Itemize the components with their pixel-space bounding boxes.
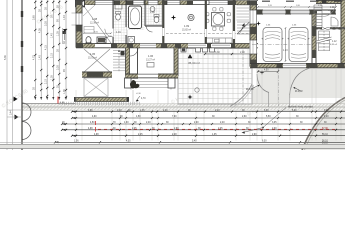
road band <box>0 144 345 148</box>
driveway centerline dash-dot <box>278 68 280 106</box>
garage bottom wall <box>250 64 345 68</box>
interior wall v6 <box>233 0 235 44</box>
svg-text:1.12: 1.12 <box>332 41 337 43</box>
upper storey dashed line <box>166 33 250 35</box>
terrace star symbol <box>187 94 192 99</box>
svg-text:2,45: 2,45 <box>138 134 143 136</box>
terrace corner arc cut <box>230 84 252 107</box>
red survey tick <box>57 97 59 105</box>
svg-text:4,35: 4,35 <box>126 141 131 143</box>
driveway wedge near terrace <box>230 84 289 107</box>
svg-text:2,00: 2,00 <box>194 122 199 124</box>
fence comb ticks <box>59 102 61 105</box>
svg-text:56,10: 56,10 <box>322 134 328 136</box>
svg-text:3,05: 3,05 <box>272 122 277 124</box>
red site dashed line <box>98 128 101 130</box>
dim row y=118.0 <box>72 117 345 119</box>
svg-text:4,90: 4,90 <box>92 116 97 118</box>
svg-text:1,50: 1,50 <box>136 116 141 118</box>
svg-text:2,90: 2,90 <box>252 134 257 136</box>
right exterior wall of house <box>250 1 257 67</box>
car 2 <box>289 28 308 62</box>
wardrobe room 1.08 <box>84 27 94 34</box>
front fence wall band <box>75 98 128 102</box>
section marker A <box>63 29 67 32</box>
left fence line <box>21 0 23 150</box>
dim row y=135.7 <box>72 135 345 137</box>
svg-text:35,34 m²: 35,34 m² <box>188 61 200 65</box>
divider X brace top right <box>316 27 322 30</box>
svg-text:5,40: 5,40 <box>192 141 197 143</box>
vestibule inner wall <box>137 48 139 76</box>
left small arrows bottom of chains <box>34 97 36 100</box>
svg-text:2,40: 2,40 <box>146 122 151 124</box>
leader arrow near fence <box>136 96 140 101</box>
fence line redraw <box>21 96 23 150</box>
svg-text:1,35: 1,35 <box>212 134 217 136</box>
gate swing arc 1 <box>22 103 31 121</box>
room 1.05 cross diagonals <box>84 49 110 72</box>
garage top wall <box>257 10 337 14</box>
driveway arc right R4 <box>290 68 311 95</box>
svg-text:4,20: 4,20 <box>324 116 329 118</box>
pavement hatched band 1 <box>22 104 345 107</box>
svg-text:4,90: 4,90 <box>88 110 93 112</box>
svg-text:12,36 m²: 12,36 m² <box>90 22 99 25</box>
svg-text:2,40: 2,40 <box>240 51 245 54</box>
room 1.08 diagonal window-to-floor marks <box>83 5 111 43</box>
pantry shelves <box>237 4 250 6</box>
dim row y=111.6 <box>72 111 345 113</box>
left dim chain lines <box>34 0 36 100</box>
vestibule right wall / terrace edge <box>174 48 178 76</box>
left dim line a <box>6 0 8 150</box>
left exterior wall <box>76 1 82 48</box>
svg-text:1,40: 1,40 <box>63 15 66 20</box>
exterior stair upper <box>314 4 322 6</box>
right rooms divider wall <box>316 27 345 29</box>
washbasin <box>150 7 155 12</box>
svg-text:6,30: 6,30 <box>262 141 267 143</box>
driveway path strip <box>268 93 289 107</box>
boiler double circle <box>188 14 194 20</box>
wc toilet <box>154 16 159 22</box>
svg-text:4,05: 4,05 <box>38 28 41 33</box>
dim between cars <box>285 28 287 61</box>
interior wall v5 <box>205 0 207 44</box>
driveway paved area fill <box>257 68 345 99</box>
svg-text:2,40: 2,40 <box>220 122 225 124</box>
dim row y=129.8 <box>62 129 345 131</box>
dimension extension lines lower <box>75 111 77 141</box>
interior wall h1 <box>145 25 163 27</box>
svg-text:6,85 m²: 6,85 m² <box>330 43 337 46</box>
svg-text:15,82 m²: 15,82 m² <box>182 29 191 32</box>
svg-text:4,98: 4,98 <box>88 128 93 130</box>
wc tiled floor <box>146 3 162 25</box>
terrace planter boxes <box>181 48 186 53</box>
svg-text:5,50: 5,50 <box>266 116 271 118</box>
gutter mark left <box>62 28 64 44</box>
big site curve <box>302 98 345 151</box>
svg-text:13,27 m²: 13,27 m² <box>146 59 155 62</box>
chairs <box>206 13 209 16</box>
garage star <box>256 21 261 26</box>
svg-text:1.01: 1.01 <box>116 31 121 34</box>
interior wall v4 <box>162 0 164 44</box>
svg-text:2,10: 2,10 <box>215 110 220 112</box>
room 1.05 bottom wall <box>82 72 112 77</box>
far right exterior wall <box>341 0 345 64</box>
svg-text:3,44: 3,44 <box>10 110 13 115</box>
svg-text:7,90: 7,90 <box>172 116 177 118</box>
svg-text:1,40: 1,40 <box>38 55 41 60</box>
svg-text:1,35: 1,35 <box>56 31 59 36</box>
room 1.11 counter <box>331 17 338 26</box>
fence end posts <box>74 97 77 102</box>
svg-text:4,15: 4,15 <box>44 45 47 50</box>
driveway star <box>260 70 265 75</box>
svg-text:4,50: 4,50 <box>90 122 95 124</box>
door swing top right <box>323 4 336 17</box>
svg-text:1,30: 1,30 <box>124 122 129 124</box>
driveway path edges <box>268 93 270 108</box>
left gate arrow 1 <box>14 97 18 102</box>
svg-text:1,35: 1,35 <box>63 89 66 94</box>
svg-text:2,10: 2,10 <box>44 79 47 84</box>
exterior stair lower <box>319 30 330 32</box>
terrace tiled deck <box>178 49 252 105</box>
room 1.05 lower cross region <box>84 78 108 97</box>
svg-text:2,10: 2,10 <box>50 53 53 58</box>
terrace north triangle marker <box>188 55 192 59</box>
svg-text:1.05: 1.05 <box>90 52 96 56</box>
washing machine <box>128 37 135 44</box>
svg-text:15,01 m²: 15,01 m² <box>88 57 97 60</box>
svg-text:építési hely vonala: építési hely vonala <box>288 104 313 108</box>
terrace centerline dash-dot <box>242 50 244 104</box>
door arc bathroom <box>104 36 112 44</box>
svg-text:4,50: 4,50 <box>264 70 269 72</box>
chimney block with cross <box>76 0 85 7</box>
svg-text:1,40 m²: 1,40 m² <box>328 9 335 12</box>
left small connector lines <box>7 109 22 111</box>
svg-text:1.09: 1.09 <box>184 24 190 28</box>
svg-text:1.08: 1.08 <box>92 17 98 21</box>
pavement inner line <box>22 103 75 105</box>
svg-text:1,35: 1,35 <box>50 75 53 80</box>
interior wall v3 <box>144 0 146 26</box>
left dim ticks <box>34 1 36 3</box>
driveway top dim <box>258 71 278 73</box>
svg-text:R 4,00: R 4,00 <box>246 88 254 91</box>
far right top wall <box>316 0 345 3</box>
vestibule bottom wall <box>126 74 179 78</box>
dim row y=124.0 <box>62 123 345 125</box>
terrace bottom edge <box>178 103 236 105</box>
kitchen counter <box>206 38 232 43</box>
car 1 <box>263 28 282 62</box>
svg-text:3,30: 3,30 <box>215 51 220 54</box>
driveway arc left R4 <box>257 74 269 93</box>
svg-text:9,20: 9,20 <box>324 110 329 112</box>
corridor stair flight <box>113 50 125 52</box>
stair break line <box>317 38 332 42</box>
entrance walkway lines <box>132 90 134 104</box>
svg-text:1.03: 1.03 <box>150 11 155 14</box>
bathroom tiled floor <box>114 3 128 44</box>
garage centerline dash-dot <box>252 44 312 46</box>
left dim line b <box>12 0 14 150</box>
garage top dim line <box>258 6 336 8</box>
entry plant symbol <box>130 80 140 89</box>
svg-text:3,30: 3,30 <box>44 21 47 26</box>
interior wall v1 <box>112 0 114 29</box>
svg-text:2,10: 2,10 <box>163 110 168 112</box>
terrace inner dim line <box>205 53 256 55</box>
driveway area under big curve <box>302 98 345 151</box>
svg-text:5,38: 5,38 <box>4 55 7 60</box>
toilet <box>86 37 91 44</box>
bathroom toilet <box>116 14 121 20</box>
svg-text:1.11: 1.11 <box>330 7 335 9</box>
left gate arrow 2 <box>15 115 19 120</box>
garage right wall <box>312 14 316 64</box>
dining table <box>212 13 225 27</box>
bathtub <box>129 6 142 29</box>
svg-text:4,98: 4,98 <box>94 134 99 136</box>
svg-text:1,45: 1,45 <box>140 110 145 112</box>
gate swing arc 2 <box>22 122 31 140</box>
svg-text:2,48: 2,48 <box>172 134 177 136</box>
svg-text:3,30: 3,30 <box>56 65 59 70</box>
house bottom wall <box>76 44 258 48</box>
entry steps <box>131 78 171 80</box>
door arc wc <box>146 26 153 33</box>
entry side planter right <box>168 78 175 88</box>
svg-text:1,40: 1,40 <box>117 110 122 112</box>
svg-text:4,70: 4,70 <box>141 98 146 100</box>
dim row y=142.3 <box>55 141 345 143</box>
interior wall v2 <box>125 0 127 27</box>
interior dim line room 1.08 <box>84 32 111 34</box>
svg-text:4,70: 4,70 <box>32 55 35 60</box>
svg-text:R 4,00: R 4,00 <box>295 90 303 93</box>
terrace tree circle <box>195 88 199 92</box>
svg-text:3,30: 3,30 <box>264 110 269 112</box>
living room star symbol <box>171 15 176 20</box>
svg-text:1,40: 1,40 <box>50 33 53 38</box>
svg-text:2,60: 2,60 <box>242 116 247 118</box>
entry side planter left <box>125 78 132 88</box>
roof overhang dashes top <box>262 0 342 2</box>
svg-text:5,20: 5,20 <box>292 110 297 112</box>
pavement hatched band 2 <box>22 107 345 110</box>
tub room tiles <box>127 3 145 30</box>
svg-text:1.06: 1.06 <box>148 54 154 58</box>
small stair flight <box>237 21 250 23</box>
red tick marks <box>95 127 97 132</box>
top exterior wall <box>76 1 258 5</box>
svg-text:1,36: 1,36 <box>74 141 79 143</box>
vestibule left wall <box>126 48 130 78</box>
top pier right block <box>322 0 327 3</box>
svg-text:3,65: 3,65 <box>32 15 35 20</box>
vestibule door arc <box>130 48 138 56</box>
small fixtures near bath wall <box>115 4 122 9</box>
